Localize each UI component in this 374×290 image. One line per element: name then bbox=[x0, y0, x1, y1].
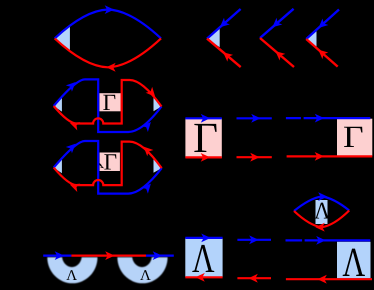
gamma box row2 right bbox=[337, 119, 372, 156]
blue arrow D3 left arc bbox=[66, 140, 79, 153]
blue line row2 box left bbox=[185, 117, 221, 119]
svg-text:Γ: Γ bbox=[343, 119, 364, 154]
small eye lambda box bbox=[316, 200, 328, 224]
blue arrow D2 left arc bbox=[66, 79, 79, 92]
small eye red bottom arc bbox=[294, 211, 349, 228]
blue arrow row3 a bbox=[249, 235, 258, 244]
chevron2 blue arrow bbox=[269, 18, 282, 31]
blue arrow D3 bottom right arc bbox=[141, 181, 154, 194]
chevron2 red line bbox=[260, 38, 294, 67]
chevron1 red line bbox=[207, 39, 241, 68]
svg-text:Γ: Γ bbox=[104, 150, 117, 176]
gamma label row2 right bbox=[343, 119, 364, 154]
small eye blue top arc bbox=[294, 196, 349, 211]
red arrow D2 bottom left bbox=[68, 119, 80, 130]
gamma box row2 left bbox=[185, 118, 221, 157]
svg-text:Γ: Γ bbox=[103, 90, 116, 116]
red segment row4 bbox=[71, 255, 146, 257]
gamma box D3 bbox=[100, 153, 120, 172]
red arrow row2 box left bbox=[201, 153, 210, 162]
blue line D2 bbox=[54, 79, 162, 132]
red arrow D3 bottom left bbox=[68, 180, 80, 191]
blue arrow D1 top bbox=[105, 5, 114, 14]
red arrow row4 bbox=[105, 251, 114, 260]
red segment row3 b bbox=[286, 278, 372, 280]
chevron1 red arrow bbox=[220, 49, 233, 62]
red arrow row3 box left bbox=[195, 273, 204, 282]
vertex triangle D2 left bbox=[54, 96, 62, 112]
chevron3 vertex triangle bbox=[306, 31, 316, 48]
blue line row3 box left bbox=[185, 237, 222, 239]
svg-text:Λ: Λ bbox=[66, 268, 77, 284]
blue line D3 bbox=[54, 141, 162, 194]
red line D3 bbox=[54, 142, 162, 186]
svg-text:Λ: Λ bbox=[314, 199, 331, 225]
vertex triangle D3 right bbox=[154, 157, 162, 173]
vertex triangle D1 bbox=[55, 26, 70, 50]
chevron3 red arrow bbox=[315, 46, 328, 59]
red segment row3 a bbox=[237, 277, 271, 279]
small eye blue arrow bbox=[318, 192, 327, 201]
svg-text:Λ: Λ bbox=[140, 268, 151, 284]
blue segment row4 b bbox=[146, 255, 174, 257]
small eye lambda label bbox=[314, 199, 331, 225]
lambda label row3 right bbox=[342, 239, 365, 285]
blue arrow row2 a bbox=[251, 114, 260, 123]
chevron2 red arrow bbox=[272, 48, 285, 61]
chevron2 blue line bbox=[260, 9, 294, 38]
chevron3 red line bbox=[306, 39, 338, 67]
blue arrow D2 bottom right arc bbox=[141, 119, 154, 132]
blue segment row4 a bbox=[43, 255, 71, 257]
chevron1 vertex triangle bbox=[207, 29, 220, 48]
lambda box row3 left bbox=[185, 238, 222, 277]
red arrow row3 a bbox=[248, 274, 257, 283]
blue segment row2 a bbox=[237, 117, 272, 119]
gamma box D2 bbox=[99, 93, 120, 111]
red bottom arc D1 bbox=[55, 38, 161, 67]
lambda box row3 right bbox=[337, 242, 371, 278]
red arrow D3 top right arc bbox=[141, 143, 154, 156]
red arrow row2 b bbox=[315, 152, 324, 161]
red line row2 box left bbox=[185, 156, 221, 158]
blue arrow row4 b bbox=[153, 251, 162, 260]
red segment row2 b bbox=[287, 155, 373, 157]
lambda label row3 left bbox=[192, 235, 215, 281]
red arrow D1 bottom bbox=[106, 63, 115, 72]
svg-text:Γ: Γ bbox=[193, 115, 218, 162]
blue top arc D1 bbox=[55, 10, 161, 39]
black annotation mark D3 bbox=[99, 164, 101, 166]
red line D2 bbox=[54, 80, 162, 124]
red segment row2 a bbox=[237, 156, 272, 158]
red arrow row2 a bbox=[250, 153, 259, 162]
red line row3 box left bbox=[185, 276, 222, 278]
vertex triangle D2 right bbox=[154, 95, 162, 111]
chevron1 blue line bbox=[207, 9, 241, 39]
blue arrow row2 b bbox=[315, 114, 324, 123]
blue segment row2 b bbox=[286, 117, 370, 119]
blue arrow row2 box left bbox=[201, 114, 210, 123]
chevron1 blue arrow bbox=[217, 18, 230, 31]
blue segment row3 b bbox=[286, 239, 371, 241]
blue arrow row4 a bbox=[55, 251, 64, 260]
blue segment row3 a bbox=[237, 239, 271, 241]
chevron3 blue line bbox=[306, 10, 339, 40]
lambda half annulus 2 bbox=[117, 257, 167, 283]
small eye red arrow bbox=[315, 223, 324, 232]
lambda half annulus 1 bbox=[47, 257, 97, 283]
blue arrow row3 b bbox=[316, 236, 325, 245]
blue arrow row3 box left bbox=[201, 234, 210, 243]
red arrow D2 top right arc bbox=[146, 87, 159, 100]
red arrow row3 b bbox=[317, 275, 326, 284]
vertex triangle D3 left bbox=[54, 157, 62, 173]
chevron3 blue arrow bbox=[316, 18, 329, 31]
